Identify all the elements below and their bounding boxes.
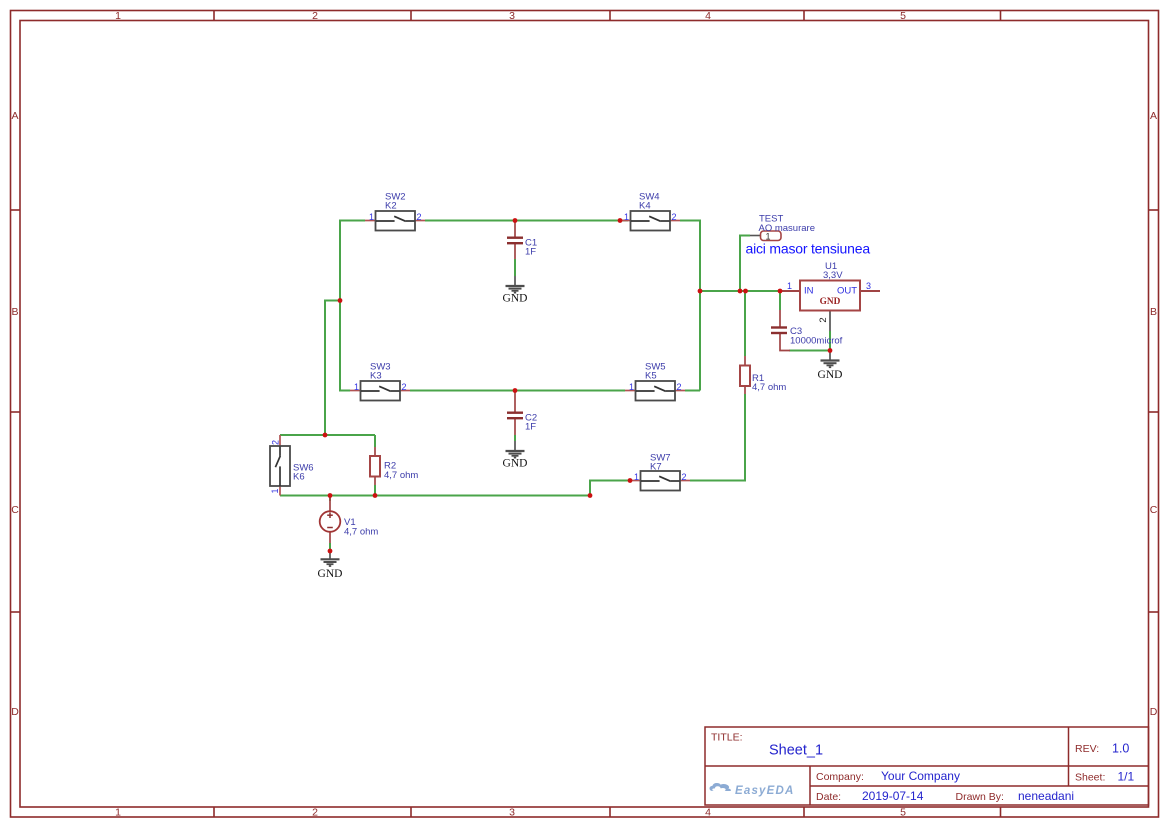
svg-text:Company:: Company: [816,771,864,783]
wire top rail: corner to SW2 pin 1 [339,220,365,222]
wire R2 bottom lead [374,485,376,496]
svg-text:neneadani: neneadani [1018,789,1074,803]
svg-text:4,7 ohm: 4,7 ohm [384,470,418,481]
svg-text:Your Company: Your Company [881,769,960,783]
wire left vertical x=340 [339,220,341,391]
voltage source V1 [320,496,379,543]
ground below U1 pin2 [818,351,843,381]
svg-text:1.0: 1.0 [1112,742,1129,756]
svg-text:5: 5 [900,10,906,22]
capacitor C1 [507,221,537,259]
junction V1 to ground [328,549,333,554]
switch SW2 [365,192,425,231]
ground below V1 [318,551,343,580]
junction at C2 / SW3-SW5 rail [513,388,518,393]
junction at C1 / top rail [513,218,518,223]
svg-text:1/1: 1/1 [1118,770,1135,784]
svg-text:3: 3 [509,807,515,819]
svg-text:IN: IN [804,285,814,296]
wire C3 top branch [779,291,781,310]
wire U1 input row [700,290,780,292]
title block [705,727,1149,805]
wire corner to SW3 pin 1 [339,390,350,392]
svg-text:1: 1 [354,382,359,392]
svg-text:GND: GND [318,568,343,580]
svg-text:2: 2 [402,382,407,392]
junction bottom rail to SW7 jog [588,493,593,498]
svg-text:Sheet:: Sheet: [1075,772,1105,784]
svg-text:2: 2 [672,212,677,222]
svg-text:2: 2 [417,212,422,222]
svg-text:2019-07-14: 2019-07-14 [862,789,924,803]
wire V1 bottom to ground junction [329,543,331,551]
junction C3 branch / U1 pin 1 [778,289,783,294]
svg-text:K6: K6 [293,472,305,483]
svg-text:1F: 1F [525,422,536,433]
junction TEST branch [738,289,743,294]
EasyEDA logo [710,783,795,797]
svg-text:K3: K3 [370,371,382,382]
svg-text:4: 4 [705,10,711,22]
svg-text:D: D [1150,706,1158,718]
net flag TEST pin [750,214,815,242]
svg-text:1F: 1F [525,247,536,258]
svg-text:K5: K5 [645,371,657,382]
svg-text:3: 3 [866,281,871,291]
svg-text:1: 1 [624,212,629,222]
svg-text:1: 1 [270,488,280,493]
regulator U1 [780,261,880,331]
svg-text:4: 4 [705,807,711,819]
svg-text:K4: K4 [639,201,651,212]
svg-text:1: 1 [115,10,121,22]
svg-text:GND: GND [503,458,528,470]
svg-text:10000microf: 10000microf [790,336,843,347]
svg-text:4,7 ohm: 4,7 ohm [344,527,378,538]
junction V1 on bottom rail [328,493,333,498]
wire C2 bottom to ground [514,435,516,441]
wire R1 top to input row [744,291,746,356]
wire V1 top stub [329,496,331,502]
junction at SW7 pin 1 [628,478,633,483]
svg-text:Sheet_1: Sheet_1 [769,743,823,759]
svg-text:A: A [1150,110,1157,122]
resistor R1 [740,356,786,394]
wire SW4 pin 2 to right corner [680,220,700,222]
junction R1 branch [743,289,748,294]
switch SW7 [630,453,690,491]
wire SW6 top rail to R2 [280,434,375,436]
wire U1 pin 2 to ground node [829,331,831,351]
wire bottom jog up to SW7 pin 1 [590,481,630,496]
wire C3 bottom to ground node [789,350,830,352]
svg-text:B: B [1150,306,1157,318]
wire bottom rail SW6 to jog [280,495,590,497]
svg-text:K2: K2 [385,201,397,212]
switch SW3 [350,362,410,401]
wire right vertical x=700 [699,220,701,391]
svg-text:C: C [11,504,19,516]
svg-text:OUT: OUT [837,285,857,296]
junction SW4/SW5 column and U1 input row [698,289,703,294]
junction at SW4 pin 1 [618,218,623,223]
wire C1 bottom to ground [514,259,516,276]
svg-text:B: B [11,306,18,318]
svg-text:K7: K7 [650,462,662,473]
capacitor C3 [771,310,843,351]
svg-text:REV:: REV: [1075,743,1099,755]
svg-text:2: 2 [818,317,829,322]
svg-text:D: D [11,706,19,718]
svg-text:2: 2 [677,382,682,392]
junction left column to SW6 rail [323,433,328,438]
svg-text:2: 2 [271,440,281,445]
wire top rail: SW2 pin 2 to SW4 pin 1 [425,220,628,222]
capacitor C2 [507,391,537,435]
svg-text:GND: GND [818,369,843,381]
svg-text:2: 2 [682,472,687,482]
wire jog from node to x=325 column [325,301,340,436]
svg-text:1: 1 [629,382,634,392]
svg-text:2: 2 [312,10,318,22]
svg-text:Drawn By:: Drawn By: [956,791,1004,803]
svg-text:4,7 ohm: 4,7 ohm [752,382,786,393]
svg-text:3,3V: 3,3V [823,270,843,281]
wire SW5 pin 2 to right corner [685,390,700,392]
svg-text:TITLE:: TITLE: [711,732,743,744]
svg-text:AO masurare: AO masurare [759,223,816,234]
junction node left column jog [338,298,343,303]
junction ground node at U1 pin 2 [828,348,833,353]
svg-text:1: 1 [787,281,792,291]
switch SW6 (vertical) [270,435,314,496]
svg-text:1: 1 [369,212,374,222]
switch SW4 [620,192,680,231]
svg-text:GND: GND [820,297,841,307]
wire SW3 pin 2 to SW5 pin 1 [410,390,625,392]
wire TEST branch [740,236,750,292]
wire R2 top lead [374,435,376,447]
svg-text:Date:: Date: [816,791,841,803]
svg-text:EasyEDA: EasyEDA [735,785,795,797]
wire SW7 pin 2 to R1 column [690,394,745,481]
svg-text:aici masor tensiunea: aici masor tensiunea [746,241,871,257]
svg-text:5: 5 [900,807,906,819]
ground below C1 [503,276,528,305]
svg-text:A: A [11,110,18,122]
svg-text:GND: GND [503,293,528,305]
svg-text:2: 2 [312,807,318,819]
svg-text:C: C [1150,504,1158,516]
resistor R2 [370,447,418,485]
svg-text:3: 3 [509,10,515,22]
svg-text:1: 1 [634,472,639,482]
ground below C2 [503,441,528,470]
svg-text:1: 1 [115,807,121,819]
junction R2 on bottom rail [373,493,378,498]
switch SW5 [625,362,685,401]
